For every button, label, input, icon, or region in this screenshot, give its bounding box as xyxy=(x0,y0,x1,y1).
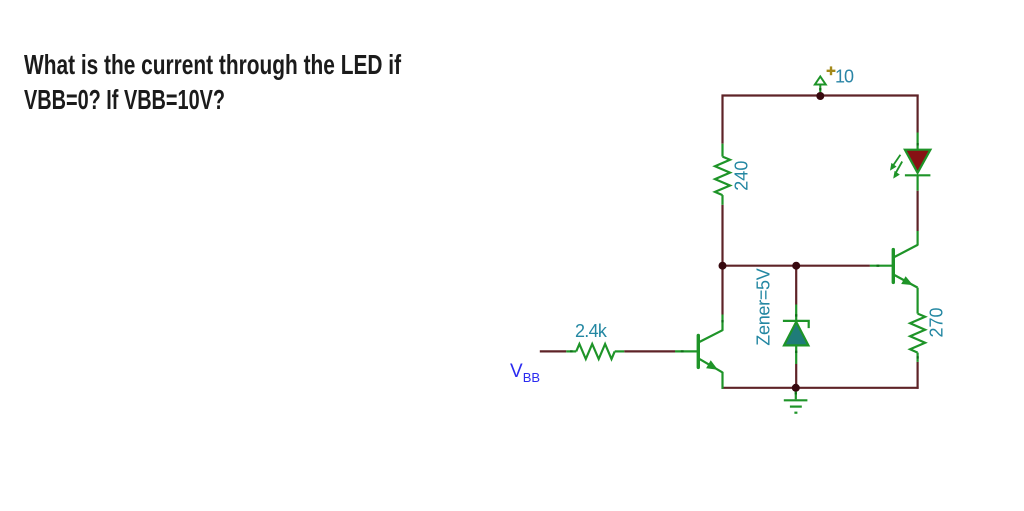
resistor R2 2.4k xyxy=(566,344,624,359)
svg-text:240: 240 xyxy=(732,161,752,191)
wire node to Q1 collector xyxy=(721,266,723,315)
node dot left xyxy=(719,262,727,270)
wire bottom rail xyxy=(722,387,919,389)
resistor R1 240 xyxy=(715,144,730,205)
question text line 1 xyxy=(24,49,401,81)
wire LED top xyxy=(916,95,918,133)
power +10 symbol xyxy=(815,77,826,97)
wire VBB to R 2.4k xyxy=(540,350,567,352)
wire R270 to bottom rail xyxy=(916,362,918,389)
wire left vertical upper (to R 240) xyxy=(721,95,723,144)
svg-text:VBB: VBB xyxy=(510,361,540,385)
wire R 2.4k to Q1 base xyxy=(624,350,675,352)
LED D2 xyxy=(905,133,931,191)
transistor Q2 xyxy=(870,231,918,288)
question text line 2 xyxy=(24,84,225,116)
zener diode D1 xyxy=(783,305,809,365)
svg-text:10: 10 xyxy=(835,67,854,87)
node dot power xyxy=(816,92,824,100)
pin end marks xyxy=(570,88,918,394)
wire left vertical lower (R 240 to node) xyxy=(721,205,723,266)
wire zener top xyxy=(795,266,797,305)
power plus sign xyxy=(827,66,836,75)
resistor R3 270 xyxy=(910,288,925,362)
wire LED to Q2 collector xyxy=(916,191,918,231)
wire top rail xyxy=(722,94,919,96)
wire zener bottom xyxy=(795,364,797,388)
transistor Q1 xyxy=(675,315,723,389)
svg-text:2.4k: 2.4k xyxy=(575,321,608,341)
node dot ground xyxy=(792,384,800,392)
ground xyxy=(784,388,808,413)
svg-text:Zener=5V: Zener=5V xyxy=(753,268,773,345)
svg-text:270: 270 xyxy=(927,307,947,337)
wire node horizontal xyxy=(723,265,870,267)
LED emission arrows xyxy=(890,155,902,179)
node dot zener top xyxy=(792,262,800,270)
